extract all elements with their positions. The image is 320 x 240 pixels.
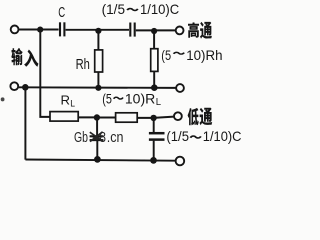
svg-text:Rh: Rh [76,57,90,73]
label 输入 (input) [11,48,38,67]
node: Rh bottom on common rail [95,85,101,91]
terminal: high-pass output - [176,84,184,92]
resistor (5~10)Rh [151,49,158,72]
capacitor (1/5~1/10)C bottom plates [149,132,165,135]
label 高通 (high-pass) [188,22,212,39]
node: output cap bottom on bottom rail [150,157,157,164]
wire: bottom rail [25,160,175,161]
wire: (5~10)RL to node F and low-pass + terminal [137,117,174,118]
wire: RL to node E [78,116,97,118]
wire: Rh top lead [97,31,99,50]
node A: top-left junction [37,27,43,33]
watermark X over shunt capacitor [90,132,103,142]
svg-text:R: R [61,93,71,108]
node: (5~10)Rh bottom on common rail [151,84,158,91]
wire: middle common rail [19,86,176,89]
svg-text:.cn: .cn [107,130,124,146]
wire: top rail to high-pass + terminal [136,29,176,31]
node C: junction (1/5~1/10)C / (5~10)Rh [151,28,157,34]
svg-text:(5: (5 [161,47,171,63]
node F: (5~10)RL / output cap junction [150,115,156,121]
svg-text:10)Rh: 10)Rh [186,47,222,63]
wire: shunt capacitor top lead (node E down) [96,118,98,136]
label 低通 (low-pass) [188,108,213,126]
svg-text:1/10)C: 1/10)C [140,1,179,17]
resistor RL [50,112,78,122]
svg-text:(5: (5 [102,90,112,106]
wire: Rh bottom lead [97,72,99,88]
wire: top rail input+ to capacitor C [19,29,59,31]
svg-text:Gb: Gb [74,130,88,146]
svg-text:C: C [58,5,65,21]
svg-text:1/10)C: 1/10)C [203,128,242,144]
svg-text:(1/5: (1/5 [166,128,189,144]
wire: node E to (5~10)RL [97,117,116,119]
resistor (5~10)RL [116,113,138,122]
terminal: low-pass output - [176,157,185,166]
svg-text:L: L [70,98,75,109]
wire: shunt capacitor bottom lead to bottom rail [96,141,98,159]
wire: left drop input- to bottom rail [24,87,26,159]
wire: (1/5~1/10)C bottom cap bottom lead [153,141,155,161]
resistor Rh [95,50,103,72]
wire: (1/5~1/10)C bottom cap top lead (node F down) [153,118,155,132]
watermark triangle under shunt cap top plate [92,137,100,140]
node B: junction C / (1/5~1/10)C / Rh [95,28,101,34]
wire: vertical drop from node A to low-pass row [40,30,50,117]
capacitor C plates [59,22,61,36]
scan speck at left margin [1,97,5,101]
capacitor shunt (under watermark) plates [90,135,104,137]
node E: RL / (5~10)RL / shunt cap junction [94,114,100,120]
svg-text:L: L [156,97,162,108]
terminal: high-pass output + [176,27,184,35]
terminal: low-pass output + [174,112,182,120]
svg-text:(1/5: (1/5 [102,1,126,17]
terminal: input + [11,26,19,34]
wire: (5~10)Rh top lead [153,31,155,49]
terminal: input - [10,82,18,90]
node: input- junction [22,84,29,91]
node: shunt cap bottom on bottom rail [94,156,101,163]
capacitor (1/5~1/10)C top plates [129,23,131,37]
wire: (5~10)Rh bottom lead [153,71,155,87]
svg-text:10)R: 10)R [125,90,155,106]
wire: top rail between capacitor C and (1/5~1/10)C [66,29,129,31]
